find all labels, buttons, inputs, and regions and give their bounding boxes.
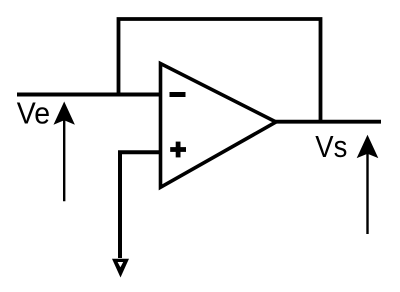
ground (open arrowhead pointing down) <box>112 259 129 278</box>
pin label minus (inverting input) <box>170 92 186 97</box>
wire feedback loop (output to inverting input) <box>119 19 321 122</box>
svg-text:Ve: Ve <box>17 96 50 131</box>
wire non-inverting input to ground drop <box>120 152 161 258</box>
pin label plus (non-inverting input) <box>170 142 186 158</box>
arrow Ve (input voltage) <box>54 102 75 202</box>
svg-text:Vs: Vs <box>315 129 347 164</box>
op-amp U1 triangle <box>161 64 277 188</box>
wire input Ve to inverting input <box>17 93 161 97</box>
arrow Vs (output voltage) <box>357 135 379 234</box>
wire output <box>276 120 382 124</box>
